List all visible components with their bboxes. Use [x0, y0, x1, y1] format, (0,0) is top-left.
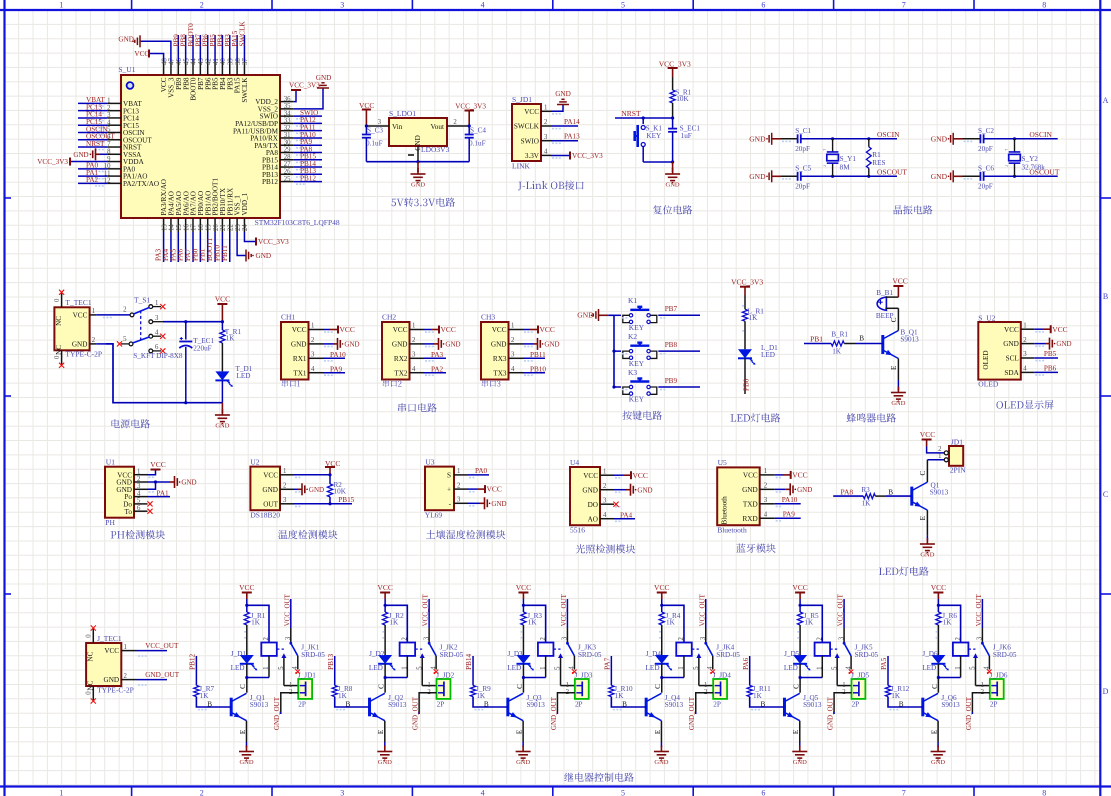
- svg-text:2: 2: [263, 637, 270, 641]
- svg-text:2: 2: [678, 637, 685, 641]
- svg-text:2: 2: [544, 119, 548, 126]
- svg-text:PB9: PB9: [665, 377, 678, 385]
- svg-text:1K: 1K: [943, 619, 953, 627]
- svg-text:3: 3: [137, 483, 141, 490]
- svg-text:3: 3: [311, 352, 315, 359]
- svg-text:2: 2: [1023, 337, 1027, 344]
- svg-text:VCC: VCC: [215, 295, 230, 304]
- svg-text:U2: U2: [250, 457, 259, 466]
- svg-text:GND: GND: [516, 759, 530, 766]
- svg-text:J_JD5: J_JD5: [851, 671, 869, 679]
- svg-text:34: 34: [284, 110, 291, 117]
- svg-text:⌐: ⌐: [823, 148, 826, 153]
- svg-text:OSCOUT: OSCOUT: [877, 168, 907, 177]
- svg-text:E: E: [930, 729, 938, 734]
- svg-text:8: 8: [107, 148, 111, 155]
- svg-text:4: 4: [1023, 366, 1027, 373]
- svg-text:PA3: PA3: [431, 351, 444, 359]
- svg-text:5: 5: [278, 666, 285, 670]
- svg-text:44: 44: [191, 58, 198, 65]
- svg-text:2P: 2P: [575, 701, 583, 709]
- svg-text:VCC: VCC: [743, 472, 758, 480]
- svg-text:1: 1: [59, 1, 63, 10]
- svg-text:1K: 1K: [666, 619, 676, 627]
- svg-text:1: 1: [603, 468, 606, 475]
- svg-text:PA4: PA4: [620, 511, 633, 519]
- svg-text:48: 48: [161, 58, 168, 65]
- svg-text:VCC_3V3: VCC_3V3: [37, 158, 68, 166]
- svg-text:VCC: VCC: [104, 647, 119, 655]
- svg-text:PB10: PB10: [530, 365, 546, 373]
- svg-text:GND: GND: [344, 341, 359, 349]
- svg-text:1: 1: [1023, 322, 1026, 329]
- svg-text:5: 5: [831, 666, 838, 670]
- svg-text:C: C: [239, 684, 247, 689]
- svg-text:20: 20: [213, 224, 220, 231]
- svg-text:25: 25: [284, 176, 291, 183]
- svg-text:3: 3: [562, 636, 569, 640]
- svg-text:2: 2: [200, 788, 204, 796]
- svg-text:SRD-05: SRD-05: [993, 651, 1017, 659]
- svg-text:26: 26: [284, 169, 291, 176]
- svg-text:J_JD3: J_JD3: [575, 671, 593, 679]
- svg-text:3: 3: [283, 497, 287, 504]
- svg-text:PB7: PB7: [665, 305, 678, 313]
- svg-text:C: C: [919, 471, 927, 476]
- svg-text:D: D: [1103, 687, 1109, 696]
- svg-text:J_D4: J_D4: [646, 650, 662, 658]
- svg-text:1K: 1K: [753, 692, 763, 700]
- svg-text:RXD: RXD: [743, 515, 758, 523]
- svg-text:GND: GND: [72, 341, 88, 349]
- svg-text:E: E: [516, 729, 524, 734]
- svg-text:0: 0: [54, 298, 61, 302]
- svg-text:B: B: [888, 489, 893, 497]
- svg-text:RX2: RX2: [394, 355, 408, 363]
- svg-text:1: 1: [137, 469, 140, 476]
- svg-text:LED: LED: [784, 664, 798, 672]
- svg-text:OSCIN: OSCIN: [877, 130, 900, 139]
- svg-text:2: 2: [124, 673, 128, 680]
- svg-text:PB0: PB0: [742, 378, 750, 391]
- svg-text:C: C: [792, 684, 800, 689]
- svg-text:14: 14: [169, 224, 176, 231]
- svg-text:GND_OUT: GND_OUT: [965, 696, 973, 730]
- svg-text:S_U2: S_U2: [978, 314, 995, 323]
- svg-text:0: 0: [86, 634, 93, 638]
- svg-text:4: 4: [430, 666, 437, 670]
- svg-text:J_D3: J_D3: [507, 650, 523, 658]
- svg-text:B: B: [346, 701, 351, 709]
- svg-text:⌐: ⌐: [1005, 148, 1008, 153]
- svg-text:CH3: CH3: [481, 313, 495, 322]
- svg-text:GND: GND: [104, 676, 120, 684]
- svg-text:PB5: PB5: [1044, 350, 1057, 358]
- svg-text:1uF: 1uF: [681, 132, 692, 140]
- svg-text:LINK: LINK: [512, 162, 530, 171]
- svg-text:PA9: PA9: [783, 511, 796, 519]
- svg-text:20pF: 20pF: [795, 183, 810, 191]
- svg-text:SWCLK: SWCLK: [514, 123, 540, 131]
- svg-text:OSCOUT: OSCOUT: [1029, 168, 1059, 177]
- svg-text:1: 1: [566, 682, 569, 689]
- svg-text:KEY: KEY: [629, 359, 645, 368]
- svg-text:GND: GND: [582, 486, 598, 494]
- svg-text:VCC: VCC: [892, 277, 907, 286]
- svg-text:4: 4: [569, 666, 576, 670]
- svg-text:VCC_3V3: VCC_3V3: [289, 82, 320, 90]
- svg-text:1: 1: [107, 98, 110, 105]
- svg-text:E: E: [890, 365, 898, 370]
- svg-text:2: 2: [511, 337, 515, 344]
- svg-text:GND_OUT: GND_OUT: [273, 696, 281, 730]
- svg-text:1: 1: [311, 323, 314, 330]
- svg-text:15: 15: [176, 224, 183, 231]
- svg-text:VCC: VCC: [393, 326, 408, 334]
- svg-text:B: B: [1103, 292, 1108, 301]
- svg-text:5: 5: [137, 498, 141, 505]
- svg-text:GND: GND: [316, 74, 332, 82]
- svg-text:3: 3: [544, 134, 548, 141]
- svg-text:PA2: PA2: [431, 365, 444, 373]
- svg-text:2: 2: [412, 337, 416, 344]
- svg-text:LED: LED: [231, 664, 245, 672]
- svg-text:2: 2: [816, 637, 823, 641]
- svg-text:32: 32: [284, 125, 291, 132]
- svg-text:S9013: S9013: [665, 701, 684, 709]
- svg-text:2: 2: [283, 483, 287, 490]
- svg-text:GND: GND: [749, 134, 766, 143]
- svg-text:6: 6: [761, 788, 765, 796]
- svg-text:C: C: [931, 684, 939, 689]
- svg-text:19: 19: [205, 224, 212, 231]
- svg-text:5: 5: [970, 666, 977, 670]
- svg-text:J_JD4: J_JD4: [713, 671, 731, 679]
- svg-text:VCC_3V3: VCC_3V3: [572, 152, 603, 160]
- svg-text:J_TEC1: J_TEC1: [97, 634, 122, 643]
- svg-text:1K: 1K: [226, 334, 236, 342]
- svg-text:C: C: [516, 684, 524, 689]
- svg-text:PB11: PB11: [221, 245, 229, 261]
- svg-text:4: 4: [311, 366, 315, 373]
- svg-text:J_D1: J_D1: [231, 650, 247, 658]
- svg-text:GND_OUT: GND_OUT: [145, 671, 180, 679]
- svg-text:OLED: OLED: [982, 350, 990, 369]
- svg-text:TX3: TX3: [493, 369, 507, 377]
- svg-text:J_D2: J_D2: [369, 650, 385, 658]
- svg-text:LED: LED: [369, 664, 383, 672]
- svg-text:GND: GND: [793, 759, 807, 766]
- svg-text:GND: GND: [920, 552, 934, 559]
- svg-text:VCC: VCC: [1052, 325, 1067, 334]
- svg-text:27: 27: [284, 161, 291, 168]
- svg-text:STM32F103C8T6_LQFP48: STM32F103C8T6_LQFP48: [255, 218, 340, 227]
- svg-text:1: 1: [92, 308, 95, 315]
- svg-text:24: 24: [242, 224, 249, 231]
- svg-text:GND: GND: [411, 182, 425, 189]
- svg-text:RX1: RX1: [293, 355, 307, 363]
- svg-text:S9013: S9013: [803, 701, 822, 709]
- svg-text:GND: GND: [256, 252, 272, 260]
- svg-text:GND: GND: [239, 759, 253, 766]
- svg-text:29: 29: [284, 147, 291, 154]
- svg-text:SRD-05: SRD-05: [716, 651, 740, 659]
- svg-text:To: To: [125, 508, 133, 516]
- svg-text:C: C: [1103, 490, 1108, 499]
- svg-text:20pF: 20pF: [978, 183, 993, 191]
- svg-text:18: 18: [198, 224, 205, 231]
- svg-text:4: 4: [155, 329, 159, 336]
- svg-text:SDA: SDA: [1004, 369, 1019, 377]
- svg-text:1: 1: [412, 323, 415, 330]
- svg-text:VCC: VCC: [540, 325, 555, 334]
- svg-text:GND: GND: [291, 341, 307, 349]
- svg-text:OSCIN: OSCIN: [1029, 130, 1052, 139]
- svg-text:5: 5: [693, 666, 700, 670]
- svg-text:42: 42: [205, 58, 212, 65]
- svg-text:PA13: PA13: [564, 133, 580, 141]
- svg-text:PH: PH: [105, 518, 115, 527]
- svg-text:CH1: CH1: [281, 313, 295, 322]
- svg-text:GND: GND: [666, 182, 680, 189]
- svg-text:4: 4: [764, 511, 768, 518]
- svg-text:46: 46: [176, 58, 183, 65]
- svg-text:A: A: [1103, 96, 1109, 105]
- svg-text:20pF: 20pF: [978, 145, 993, 153]
- svg-text:VCC: VCC: [654, 583, 669, 592]
- svg-text:5: 5: [416, 666, 423, 670]
- svg-text:5: 5: [123, 336, 127, 343]
- svg-text:PB8: PB8: [665, 341, 678, 349]
- svg-text:3: 3: [1023, 351, 1027, 358]
- svg-text:2: 2: [402, 637, 409, 641]
- svg-text:5: 5: [555, 666, 562, 670]
- svg-text:4: 4: [603, 512, 607, 519]
- svg-text:¬: ¬: [823, 165, 826, 170]
- svg-text:3: 3: [378, 119, 382, 126]
- svg-text:S9013: S9013: [250, 701, 269, 709]
- svg-text:PB12: PB12: [262, 178, 278, 186]
- svg-text:GND: GND: [445, 341, 460, 349]
- svg-text:LED: LED: [237, 372, 251, 380]
- svg-text:R1: R1: [872, 151, 881, 159]
- svg-text:VCC: VCC: [920, 430, 935, 439]
- svg-text:8: 8: [1042, 788, 1046, 796]
- svg-text:GND: GND: [637, 486, 652, 494]
- svg-text:GND_OUT: GND_OUT: [412, 696, 420, 730]
- svg-text:KEY: KEY: [646, 132, 662, 140]
- svg-text:JD1: JD1: [951, 437, 963, 446]
- svg-text:3: 3: [764, 497, 768, 504]
- svg-text:VCC: VCC: [263, 471, 278, 479]
- svg-text:R3: R3: [861, 486, 870, 494]
- svg-text:10K: 10K: [334, 488, 347, 496]
- svg-text:S9013: S9013: [900, 336, 919, 344]
- svg-text:2: 2: [453, 119, 457, 126]
- svg-text:0: 0: [86, 691, 93, 695]
- svg-text:BEEP: BEEP: [876, 312, 894, 320]
- svg-text:LED: LED: [507, 664, 521, 672]
- svg-text:21: 21: [220, 224, 227, 231]
- svg-text:4: 4: [481, 788, 485, 796]
- svg-text:7: 7: [902, 788, 906, 796]
- svg-text:PB1: PB1: [810, 334, 823, 343]
- svg-text:VCC: VCC: [340, 325, 355, 334]
- svg-text:SWIO: SWIO: [521, 137, 539, 145]
- svg-text:3: 3: [155, 315, 159, 322]
- svg-text:4: 4: [707, 666, 714, 670]
- svg-text:B: B: [760, 701, 765, 709]
- svg-text:E: E: [239, 729, 247, 734]
- svg-text:39: 39: [227, 58, 234, 65]
- svg-text:VCC: VCC: [792, 471, 807, 480]
- svg-text:S9013: S9013: [388, 701, 407, 709]
- svg-text:3: 3: [603, 497, 607, 504]
- svg-text:4: 4: [511, 366, 515, 373]
- svg-text:VCC: VCC: [931, 583, 946, 592]
- svg-text:16: 16: [183, 224, 190, 231]
- svg-text:2P: 2P: [713, 701, 721, 709]
- svg-text:1: 1: [289, 682, 292, 689]
- svg-text:PA7: PA7: [604, 657, 612, 670]
- svg-text:GND: GND: [654, 759, 668, 766]
- svg-text:8: 8: [1042, 1, 1046, 10]
- svg-text:GND_OUT: GND_OUT: [688, 696, 696, 730]
- svg-text:45: 45: [183, 58, 190, 65]
- svg-text:E: E: [377, 729, 385, 734]
- svg-text:38: 38: [235, 58, 242, 65]
- svg-text:Vin: Vin: [392, 123, 403, 131]
- svg-text:VCC: VCC: [134, 50, 149, 58]
- svg-text:S_LDO1: S_LDO1: [389, 109, 416, 118]
- svg-text:5: 5: [621, 788, 625, 796]
- svg-text:PA9: PA9: [330, 365, 343, 373]
- svg-text:S_JD1: S_JD1: [512, 95, 532, 104]
- svg-text:VCC: VCC: [150, 460, 165, 469]
- svg-text:VCC: VCC: [516, 583, 531, 592]
- svg-text:VCC: VCC: [292, 326, 307, 334]
- svg-text:4: 4: [984, 666, 991, 670]
- svg-text:LDO3V3: LDO3V3: [421, 145, 450, 154]
- svg-text:OUT: OUT: [263, 500, 278, 508]
- svg-text:B: B: [859, 334, 864, 342]
- svg-text:17: 17: [191, 224, 198, 231]
- svg-text:GND: GND: [73, 151, 88, 159]
- svg-text:2P: 2P: [990, 701, 998, 709]
- svg-text:VCC: VCC: [325, 459, 340, 468]
- svg-text:2: 2: [123, 307, 127, 314]
- svg-text:LED: LED: [922, 664, 936, 672]
- svg-text:4: 4: [292, 666, 299, 670]
- svg-text:VCC: VCC: [73, 312, 88, 320]
- svg-text:37: 37: [242, 58, 249, 65]
- svg-text:3: 3: [423, 636, 430, 640]
- svg-text:0.1uF: 0.1uF: [366, 139, 383, 147]
- svg-text:GND_OUT: GND_OUT: [826, 696, 834, 730]
- svg-text:3: 3: [700, 636, 707, 640]
- svg-text:6: 6: [761, 1, 765, 10]
- svg-text:Bluetooth: Bluetooth: [721, 496, 729, 525]
- svg-text:31: 31: [284, 132, 291, 139]
- svg-text:GND: GND: [931, 759, 945, 766]
- svg-text:2: 2: [764, 483, 768, 490]
- svg-text:VCC: VCC: [377, 583, 392, 592]
- svg-text:GND: GND: [1003, 340, 1019, 348]
- svg-text:TX2: TX2: [394, 369, 408, 377]
- svg-text:VCC: VCC: [633, 471, 648, 480]
- svg-text:2: 2: [540, 637, 547, 641]
- svg-text:K3: K3: [628, 368, 637, 377]
- svg-text:40: 40: [220, 58, 227, 65]
- svg-text:K1: K1: [628, 296, 637, 305]
- svg-text:¬: ¬: [1005, 165, 1008, 170]
- svg-text:9: 9: [107, 156, 111, 163]
- svg-text:NC: NC: [55, 316, 63, 326]
- svg-text:NRST: NRST: [621, 109, 641, 118]
- svg-text:8M: 8M: [840, 163, 851, 171]
- svg-text:PA5: PA5: [880, 657, 888, 670]
- svg-text:1K: 1K: [476, 692, 486, 700]
- svg-text:2P: 2P: [298, 701, 306, 709]
- svg-text:2PIN: 2PIN: [950, 466, 966, 475]
- svg-text:1K: 1K: [832, 347, 842, 355]
- svg-text:PB11: PB11: [530, 351, 546, 359]
- svg-text:1K: 1K: [749, 314, 759, 322]
- svg-text:43: 43: [198, 58, 205, 65]
- svg-text:GND: GND: [118, 36, 134, 44]
- svg-text:22: 22: [227, 224, 234, 231]
- svg-text:7: 7: [107, 141, 111, 148]
- svg-text:1: 1: [427, 682, 430, 689]
- svg-text:S_U1: S_U1: [118, 65, 135, 74]
- svg-text:1: 1: [283, 468, 286, 475]
- svg-text:VCC: VCC: [441, 325, 456, 334]
- svg-text:DS18B20: DS18B20: [250, 511, 280, 520]
- svg-text:SRD-05: SRD-05: [301, 651, 325, 659]
- svg-text:3: 3: [977, 636, 984, 640]
- svg-text:1K: 1K: [389, 619, 399, 627]
- svg-text:GND_OUT: GND_OUT: [550, 696, 558, 730]
- svg-text:VCC_3V3: VCC_3V3: [258, 238, 289, 246]
- svg-text:NRST: NRST: [86, 140, 105, 148]
- svg-text:VCC: VCC: [792, 583, 807, 592]
- svg-text:S9013: S9013: [930, 489, 949, 497]
- svg-text:VDD_1: VDD_1: [241, 192, 249, 215]
- svg-text:GND: GND: [491, 500, 506, 508]
- svg-text:PB12: PB12: [300, 174, 316, 182]
- svg-text:2: 2: [457, 482, 461, 489]
- svg-text:YL69: YL69: [425, 511, 443, 520]
- svg-text:3: 3: [511, 352, 515, 359]
- svg-text:S_KFT DIP-8X8: S_KFT DIP-8X8: [133, 352, 183, 360]
- svg-text:J_D5: J_D5: [784, 650, 800, 658]
- svg-text:1K: 1K: [891, 692, 901, 700]
- svg-text:220uF: 220uF: [193, 344, 211, 352]
- svg-text:33: 33: [284, 118, 291, 125]
- svg-text:PB15: PB15: [338, 496, 354, 504]
- svg-text:GND: GND: [392, 341, 408, 349]
- svg-text:U1: U1: [106, 458, 115, 467]
- svg-text:4: 4: [481, 1, 485, 10]
- svg-text:K2: K2: [628, 332, 637, 341]
- svg-text:GND: GND: [749, 172, 766, 181]
- svg-text:E: E: [919, 515, 927, 520]
- svg-text:TXD: TXD: [743, 500, 758, 508]
- svg-text:PA6: PA6: [742, 657, 750, 670]
- svg-text:28: 28: [284, 154, 291, 161]
- svg-text:B: B: [622, 701, 627, 709]
- svg-text:OLED: OLED: [978, 380, 999, 389]
